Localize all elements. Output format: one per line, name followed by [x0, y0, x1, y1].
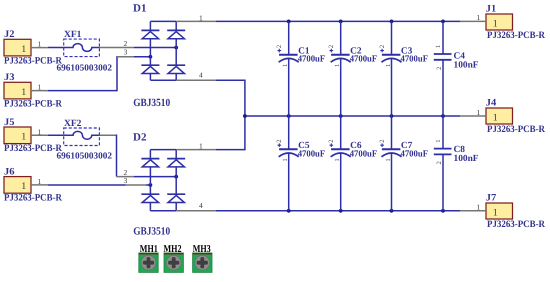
svg-text:2: 2 — [379, 45, 386, 48]
svg-text:PJ3263-PCB-R: PJ3263-PCB-R — [487, 219, 546, 230]
svg-text:4700uF: 4700uF — [401, 54, 429, 64]
wire XF1 to D1 pin 2 (gray pin part) — [99, 47, 134, 49]
J5 pin 1 — [31, 127, 48, 136]
svg-text:J3: J3 — [4, 72, 15, 83]
wire D2 pin 2 (gray pin part) — [117, 176, 135, 178]
junction mid rail at center vertical — [243, 114, 247, 118]
bridge rectifier D1 diode columns — [141, 21, 185, 80]
svg-text:2: 2 — [436, 161, 443, 164]
connector J6 — [4, 177, 31, 194]
capacitor C2 — [330, 21, 351, 116]
connector J7 — [486, 203, 513, 219]
wire D2 pin 1 rail — [150, 149, 245, 151]
svg-text:2: 2 — [276, 139, 283, 142]
wire XF1 to D1 pin 2 — [134, 47, 176, 49]
svg-text:100nF: 100nF — [454, 154, 479, 164]
svg-text:1: 1 — [38, 127, 42, 136]
svg-text:1: 1 — [477, 108, 481, 117]
svg-text:1: 1 — [21, 87, 26, 98]
svg-text:D2: D2 — [133, 132, 147, 144]
junction mid rail x=391.5 — [390, 114, 394, 118]
svg-text:MH3: MH3 — [193, 244, 211, 255]
capacitor C8 — [434, 116, 452, 211]
wire mid rail to J4 — [245, 115, 460, 117]
wire D2 pin 3 (gray pin part) — [126, 184, 147, 186]
J1 pin 1 — [460, 13, 486, 22]
wire to D2 pin 2 — [134, 176, 176, 178]
connector J5 — [4, 127, 31, 144]
svg-text:1: 1 — [334, 64, 341, 67]
svg-text:696105003002: 696105003002 — [57, 63, 113, 73]
connector J1 — [486, 14, 513, 30]
svg-text:2: 2 — [328, 45, 335, 48]
wire bottom rail D2 pin 4 to J7 — [150, 210, 460, 212]
svg-text:1: 1 — [38, 40, 42, 49]
svg-text:4700uF: 4700uF — [298, 54, 326, 64]
junction mid rail x=340.7 — [339, 114, 343, 118]
svg-text:696105003002: 696105003002 — [57, 150, 113, 160]
svg-text:MH2: MH2 — [164, 244, 182, 255]
svg-text:J7: J7 — [486, 193, 497, 204]
capacitor C7 — [380, 116, 401, 211]
J6 pin 1 — [31, 177, 48, 186]
wire D1 pin 3 (gray pin part) — [117, 56, 134, 58]
junction bottom rail x=391.5 — [390, 209, 394, 213]
capacitor C5 — [278, 116, 299, 211]
junction at D2 pin 3 / left column — [149, 183, 153, 187]
junction top rail x=340.7 — [339, 20, 343, 24]
junction top rail x=391.5 — [390, 20, 394, 24]
svg-text:2: 2 — [379, 139, 386, 142]
wire to D1 pin 3 — [134, 56, 150, 58]
junction bottom rail x=288.7 — [287, 209, 291, 213]
svg-text:1: 1 — [435, 45, 442, 48]
svg-text:4700uF: 4700uF — [350, 149, 378, 159]
wire XF2 vertical down to D2 pin 2 — [116, 135, 118, 177]
J3 pin 1 — [31, 83, 48, 92]
svg-text:1: 1 — [21, 181, 26, 192]
svg-text:1: 1 — [21, 44, 26, 55]
mounting hole MH1 — [139, 253, 158, 272]
svg-text:4700uF: 4700uF — [350, 54, 378, 64]
junction mid rail x=288.7 — [287, 114, 291, 118]
connector J2 — [4, 39, 31, 56]
wire center vertical D1- to D2+ — [244, 80, 246, 149]
capacitor C6 — [330, 116, 351, 211]
svg-text:1: 1 — [38, 83, 42, 92]
mounting hole MH3 — [193, 253, 212, 272]
svg-text:J2: J2 — [4, 29, 15, 40]
svg-text:1: 1 — [334, 158, 341, 161]
junction bottom rail x=443.0 — [441, 209, 445, 213]
svg-text:4700uF: 4700uF — [298, 149, 326, 159]
capacitor C4 — [434, 21, 452, 116]
wire D1 pin 4 rail — [150, 79, 245, 81]
svg-text:PJ3263-PCB-R: PJ3263-PCB-R — [4, 98, 63, 109]
wire top positive rail D1 pin 1 to J1 — [150, 20, 460, 22]
J2 pin 1 — [31, 40, 48, 49]
svg-text:1: 1 — [493, 18, 498, 29]
junction at D1 pin 3 / left column — [149, 55, 153, 59]
J7 pin 1 — [460, 203, 486, 212]
junction top rail x=288.7 — [287, 20, 291, 24]
svg-text:3: 3 — [124, 176, 128, 185]
fuse XF1 — [64, 39, 100, 57]
svg-text:J6: J6 — [4, 166, 15, 177]
svg-text:XF1: XF1 — [64, 30, 82, 40]
capacitor C3 — [380, 21, 401, 116]
svg-text:1: 1 — [282, 64, 289, 67]
bridge rectifier D2 diode columns — [141, 150, 185, 211]
fuse XF2 — [64, 128, 100, 146]
svg-text:1: 1 — [493, 207, 498, 218]
wire J6 to D2 pin 3 — [48, 184, 126, 186]
svg-text:PJ3263-PCB-R: PJ3263-PCB-R — [487, 30, 546, 41]
svg-text:D1: D1 — [133, 3, 146, 15]
svg-text:4700uF: 4700uF — [401, 149, 429, 159]
svg-text:XF2: XF2 — [64, 119, 82, 129]
J4 pin 1 — [460, 108, 486, 117]
svg-text:1: 1 — [477, 13, 481, 22]
svg-text:J4: J4 — [486, 98, 497, 109]
connector J4 — [486, 108, 513, 124]
junction bottom rail x=340.7 — [339, 209, 343, 213]
svg-text:100nF: 100nF — [454, 60, 479, 70]
svg-text:2: 2 — [328, 139, 335, 142]
svg-text:3: 3 — [124, 48, 128, 57]
svg-text:GBJ3510: GBJ3510 — [133, 97, 170, 109]
svg-text:GBJ3510: GBJ3510 — [133, 225, 170, 237]
junction top rail x=443.0 — [441, 20, 445, 24]
wire XF2 output (gray pin part) — [99, 134, 116, 136]
svg-text:MH1: MH1 — [140, 244, 158, 255]
svg-text:PJ3263-PCB-R: PJ3263-PCB-R — [4, 193, 63, 204]
junction mid rail x=443.0 — [441, 114, 445, 118]
junction at D2 pin 2 / right column — [174, 175, 178, 179]
svg-text:PJ3263-PCB-R: PJ3263-PCB-R — [4, 55, 63, 66]
svg-text:1: 1 — [38, 177, 42, 186]
svg-text:1: 1 — [385, 64, 392, 67]
svg-text:J5: J5 — [4, 117, 15, 128]
capacitor C1 — [278, 21, 299, 116]
svg-text:2: 2 — [436, 67, 443, 70]
svg-text:J1: J1 — [486, 4, 497, 15]
svg-text:1: 1 — [385, 158, 392, 161]
svg-text:4: 4 — [199, 201, 203, 210]
wire to D2 pin 3 left column — [146, 184, 150, 186]
svg-text:1: 1 — [282, 158, 289, 161]
svg-text:1: 1 — [435, 139, 442, 142]
wire J5 to XF2 — [48, 134, 64, 136]
svg-text:4: 4 — [199, 70, 203, 79]
wire J3 horizontal — [48, 90, 117, 92]
svg-text:1: 1 — [21, 132, 26, 143]
svg-text:2: 2 — [276, 45, 283, 48]
svg-text:1: 1 — [493, 112, 498, 123]
connector J3 — [4, 82, 31, 99]
svg-text:PJ3263-PCB-R: PJ3263-PCB-R — [4, 143, 63, 154]
svg-text:PJ3263-PCB-R: PJ3263-PCB-R — [487, 124, 546, 135]
wire J3 vertical up to D1 pin 3 — [116, 56, 118, 91]
mounting hole MH2 — [164, 253, 183, 272]
junction at D1 pin 2 / right column — [174, 46, 178, 50]
wire J2 to XF1 — [48, 47, 64, 49]
svg-text:1: 1 — [477, 203, 481, 212]
